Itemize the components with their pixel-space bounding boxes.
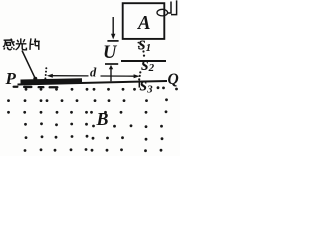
svg-text:d: d — [90, 65, 97, 79]
U top arrowhead — [111, 34, 115, 40]
hanzi 片 — [30, 38, 40, 50]
film under-dashes — [13, 86, 19, 88]
beam dotted line upper dots — [138, 42, 140, 44]
svg-text:A: A — [136, 12, 150, 34]
svg-text:s1: s1 — [137, 34, 151, 55]
hanzi 光 — [16, 38, 27, 50]
slit tick s3 — [138, 80, 140, 87]
magnetic field B dots — [7, 86, 178, 152]
U dimension top arrow stem — [112, 17, 114, 35]
photosensitive film thick bar — [21, 81, 83, 82]
svg-text:U: U — [103, 43, 118, 63]
landing point dotted line — [45, 67, 47, 69]
U bottom arrowhead — [109, 65, 113, 69]
pointer end blob — [33, 77, 37, 81]
d dimension line left segment — [50, 75, 89, 77]
svg-text:s3: s3 — [139, 74, 153, 95]
U top tick — [107, 40, 118, 42]
d dimension line right segment — [101, 75, 136, 77]
U dimension bottom arrow stem — [110, 68, 112, 82]
hanzi 感 — [3, 39, 15, 50]
svg-text:Q: Q — [168, 71, 179, 88]
beam dotted line lower dots — [139, 71, 141, 73]
lower plate — [121, 60, 166, 62]
svg-text:s2: s2 — [140, 54, 154, 75]
box A (device) — [123, 3, 165, 39]
hook wire pair top right — [167, 2, 171, 14]
svg-text:P: P — [5, 69, 17, 88]
d right arrowhead — [134, 74, 140, 78]
wire loop ellipse — [157, 9, 168, 16]
d left arrowhead — [47, 74, 53, 78]
U bottom tick — [105, 63, 118, 65]
wire hook 2 — [171, 0, 177, 14]
PQ line — [18, 81, 168, 85]
pointer line from label to film — [22, 51, 35, 78]
